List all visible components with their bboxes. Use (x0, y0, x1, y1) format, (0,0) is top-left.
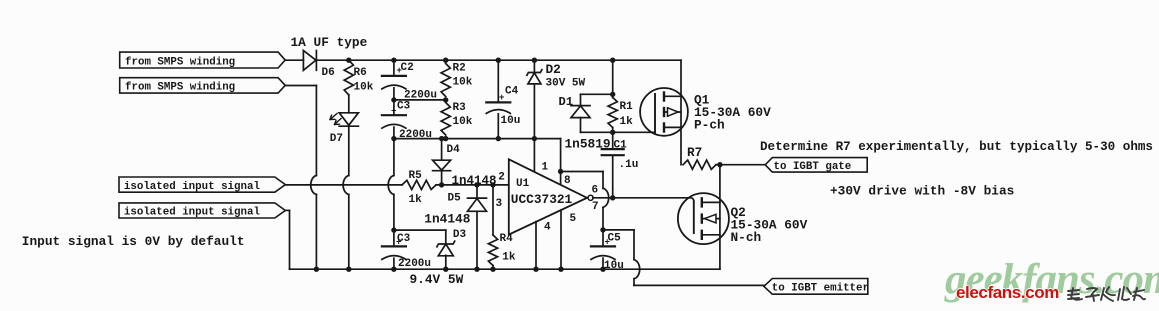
svg-text:1n4148: 1n4148 (452, 174, 497, 188)
watermark elecfans.com (956, 283, 1059, 303)
svg-text:8: 8 (564, 175, 571, 187)
svg-text:1: 1 (542, 162, 549, 174)
svg-text:1k: 1k (620, 116, 634, 128)
transistor Q1 P-ch MOSFET (640, 88, 688, 136)
wire D1 top branch (581, 93, 613, 95)
label 1k (R1) (620, 116, 634, 128)
wire row3 0V rail (394, 138, 561, 140)
svg-text:R1: R1 (620, 101, 634, 113)
label 10u (C4) (501, 115, 521, 127)
wire C5 bottom lead (602, 258, 604, 269)
label U1 (516, 178, 530, 190)
wire driver output row (593, 197, 690, 199)
svg-text:Input signal is 0V by default: Input signal is 0V by default (22, 234, 245, 249)
svg-text:D7: D7 (330, 133, 343, 145)
label .1u (C1) (619, 159, 639, 171)
label D6 (322, 67, 335, 79)
svg-text:1A UF type: 1A UF type (291, 35, 368, 50)
label D2 (546, 62, 561, 77)
wire C1 bottom lead to output node (612, 156, 614, 198)
resistor R7 (683, 160, 720, 169)
svg-text:D6: D6 (322, 67, 335, 79)
resistor R3 (441, 103, 450, 136)
wire C3 bottom lead (393, 127, 395, 139)
wire node B branch right (603, 229, 634, 231)
wire D1 bottom branch (581, 131, 613, 133)
pin number 1 (542, 162, 549, 174)
wire R1 top lead (612, 60, 614, 97)
wire lower C3 top lead (393, 230, 395, 246)
label D4 (447, 144, 461, 156)
wire hop to node B (602, 207, 604, 230)
svg-text:R6: R6 (354, 67, 367, 79)
label R5 (409, 170, 423, 182)
svg-text:C3: C3 (397, 233, 411, 245)
net label: from SMPS winding (top) (120, 52, 286, 68)
label 1n4148 (D5) (424, 211, 470, 226)
U1 pin5 line (560, 210, 562, 269)
svg-text:N-ch: N-ch (731, 230, 762, 245)
label 1A UF type (291, 35, 368, 50)
label 1k (R4) (502, 252, 516, 264)
svg-text:6: 6 (592, 185, 599, 197)
svg-text:D3: D3 (453, 229, 467, 241)
pin number 2 (498, 172, 505, 184)
label 2200u (C3 upper) (399, 129, 432, 141)
svg-text:Determine R7 experimentally, b: Determine R7 experimentally, but typical… (760, 140, 1153, 154)
wire box2 tip right (285, 85, 316, 87)
label Q1 rating (694, 105, 771, 120)
diode D5 (468, 185, 487, 269)
svg-text:C5: C5 (608, 232, 622, 244)
wire R7 node to gate label (720, 164, 765, 166)
label D5 (448, 192, 462, 204)
svg-text:7: 7 (592, 201, 599, 213)
wire mid rail C2/C3 junction (394, 99, 446, 101)
svg-text:10u: 10u (501, 115, 521, 127)
label UCC37321 (511, 192, 573, 207)
zener diode D2 (527, 60, 542, 138)
svg-text:R4: R4 (500, 233, 514, 245)
svg-text:from SMPS winding: from SMPS winding (125, 82, 235, 94)
wire pin8 column (560, 139, 562, 185)
wire R1 bottom lead (612, 128, 614, 133)
svg-text:UCC37321: UCC37321 (511, 192, 573, 207)
label 10u (C5) (604, 260, 624, 272)
svg-text:1k: 1k (409, 194, 423, 206)
label 1n4148 (D4) (452, 174, 497, 188)
zener diode D3 (437, 241, 455, 269)
capacitor C2 (382, 66, 406, 89)
wire C2 top lead (393, 60, 395, 75)
resistor R6 (344, 60, 353, 95)
label 2200u (C2) (404, 90, 437, 102)
label 30V 5W (546, 77, 586, 89)
label D7 (330, 133, 343, 145)
svg-text:1n4148: 1n4148 (424, 211, 470, 226)
label 10k (R3) (453, 116, 473, 128)
wire -8V row to D3 (394, 230, 446, 242)
label Q2 N-ch (731, 230, 762, 245)
label C3 (upper) (397, 100, 411, 112)
svg-text:3: 3 (496, 198, 503, 210)
transistor Q2 N-ch MOSFET (678, 193, 729, 244)
wire top +30V rail D6 cathode to Q1 corner (316, 59, 681, 61)
svg-text:+: + (499, 93, 504, 103)
wire Q1 drain-source column down to R7 (680, 60, 682, 165)
label D1 (559, 95, 574, 109)
pin number 4 (544, 222, 551, 234)
svg-text:2: 2 (498, 172, 505, 184)
wire C-column row3 to lower C3 (393, 139, 395, 231)
capacitor C3 (lower) (382, 237, 406, 259)
annotation: +30V drive (830, 184, 1014, 199)
svg-text:D1: D1 (559, 95, 574, 109)
label 10k (R6) (354, 82, 374, 94)
wire input2 tip elbow (285, 210, 289, 269)
annotation: Input signal default (22, 234, 245, 249)
label 9.4V 5W (410, 272, 464, 287)
wire input row R5 to IC pin2 (436, 184, 509, 186)
wire input row left segment (285, 184, 402, 186)
wire R6-D7 column lead (348, 95, 350, 113)
wire C1 top lead (612, 132, 614, 148)
net label: to IGBT gate (765, 158, 867, 173)
svg-text:isolated input signal: isolated input signal (124, 181, 261, 193)
capacitor C4 (486, 60, 510, 138)
label R4 (500, 233, 514, 245)
svg-text:from SMPS winding: from SMPS winding (125, 56, 235, 68)
U1 pin4 line (535, 222, 537, 270)
pin number 6 (592, 185, 599, 197)
pin number 3 (496, 198, 503, 210)
svg-text:+: + (391, 107, 396, 117)
svg-text:R5: R5 (409, 170, 423, 182)
wire pin8 branch down to hop (602, 172, 604, 189)
U1 output bubble (588, 195, 593, 200)
resistor R4 (488, 185, 497, 269)
svg-text:C4: C4 (505, 86, 519, 98)
svg-text:4: 4 (544, 222, 551, 234)
LED D7 (330, 113, 358, 126)
svg-text:10k: 10k (453, 116, 473, 128)
label R2 (453, 63, 466, 75)
svg-text:C2: C2 (401, 62, 414, 74)
svg-text:C3: C3 (397, 100, 411, 112)
wire D7 to bottom rail (348, 126, 350, 269)
label 1n5819 (565, 136, 611, 151)
svg-text:R7: R7 (687, 145, 702, 160)
resistor R5 (402, 180, 436, 189)
label R3 (453, 102, 467, 114)
svg-text:5: 5 (570, 213, 577, 225)
svg-text:R2: R2 (453, 63, 466, 75)
watermark geekfans.com (945, 255, 1159, 304)
label Q2 (731, 205, 746, 220)
wire emitter line to label (634, 284, 764, 286)
op-amp style driver U1 outline (509, 159, 587, 234)
svg-text:R3: R3 (453, 102, 467, 114)
pin number 7 (592, 201, 599, 213)
pin number 8 (564, 175, 571, 187)
wire node B to C5 (602, 230, 604, 246)
svg-text:1k: 1k (502, 252, 516, 264)
wire hop over output row (603, 188, 609, 207)
svg-text:C1: C1 (614, 139, 628, 151)
svg-text:2200u: 2200u (398, 258, 431, 270)
net label: from SMPS winding (bottom) (120, 78, 286, 94)
wire emitter branch to emitter line (633, 279, 635, 286)
svg-text:D5: D5 (448, 192, 462, 204)
junction dots (314, 58, 723, 272)
capacitor C5 (591, 237, 615, 259)
wire Q2 drain column (719, 165, 721, 270)
net label: isolated input signal (bottom) (119, 203, 285, 219)
label 10k (R2) (453, 76, 473, 88)
svg-text:P-ch: P-ch (694, 118, 725, 133)
wire pin8 branch right (561, 171, 603, 173)
svg-text:D4: D4 (447, 144, 461, 156)
wire hop C-column over input row (388, 176, 394, 195)
wire C3 top lead (393, 100, 395, 115)
label R7 (687, 145, 702, 160)
svg-text:10k: 10k (453, 76, 473, 88)
svg-text:10k: 10k (354, 82, 374, 94)
schottky diode D1 (571, 94, 590, 132)
label 2200u (C3 lower) (398, 258, 431, 270)
svg-text:2200u: 2200u (399, 129, 432, 141)
net label: isolated input signal (top) (119, 177, 285, 193)
label D3 (453, 229, 467, 241)
label Q1 P-ch (694, 118, 725, 133)
svg-text:D2: D2 (546, 62, 561, 77)
diode D6 (303, 51, 316, 71)
wire R1 node to Q1 gate (613, 131, 655, 133)
label C5 (608, 232, 622, 244)
U1 pin1 line (533, 139, 535, 172)
wire emitter branch down to hop (633, 230, 635, 260)
svg-text:to IGBT gate: to IGBT gate (774, 161, 852, 173)
net label: to IGBT emitter (764, 279, 869, 295)
wire bottom rail (290, 268, 720, 270)
wire C2 bottom lead (393, 88, 395, 100)
wire output elbow to Q2 gate bar (690, 198, 694, 202)
svg-text:U1: U1 (516, 178, 530, 190)
svg-text:isolated input signal: isolated input signal (124, 207, 261, 219)
svg-text:+30V drive with -8V bias: +30V drive with -8V bias (830, 184, 1014, 199)
wire SMPS2 column down to bottom rail (315, 86, 317, 270)
resistor R1 (608, 98, 617, 128)
wire box1 tip to D6 anode (285, 59, 303, 61)
label C4 (505, 86, 519, 98)
resistor R2 (441, 64, 450, 97)
wire lower C3 bottom lead (393, 258, 395, 269)
label C3 (lower) (397, 233, 411, 245)
capacitor C3 (upper) (382, 107, 406, 129)
label Q2 rating (731, 218, 808, 233)
watermark chinese characters (1068, 287, 1145, 301)
capacitor C1 (602, 149, 624, 155)
svg-text:10u: 10u (604, 260, 624, 272)
wire hop D7-column over input row (343, 176, 349, 195)
label C1 (614, 139, 628, 151)
svg-text:30V 5W: 30V 5W (546, 77, 586, 89)
label 1k (R5) (409, 194, 423, 206)
pin number 5 (570, 213, 577, 225)
label R1 (620, 101, 634, 113)
svg-text:.1u: .1u (619, 159, 639, 171)
svg-text:to IGBT emitter: to IGBT emitter (772, 283, 869, 295)
label R6 (354, 67, 367, 79)
diode D4 (433, 139, 451, 185)
wire hop SMPS2 over input row (311, 176, 317, 195)
label C2 (401, 62, 414, 74)
annotation: Determine R7 (760, 140, 1153, 154)
svg-text:9.4V 5W: 9.4V 5W (410, 272, 464, 287)
label Q1 (694, 93, 710, 108)
wire hop over bottom rail (634, 260, 640, 279)
